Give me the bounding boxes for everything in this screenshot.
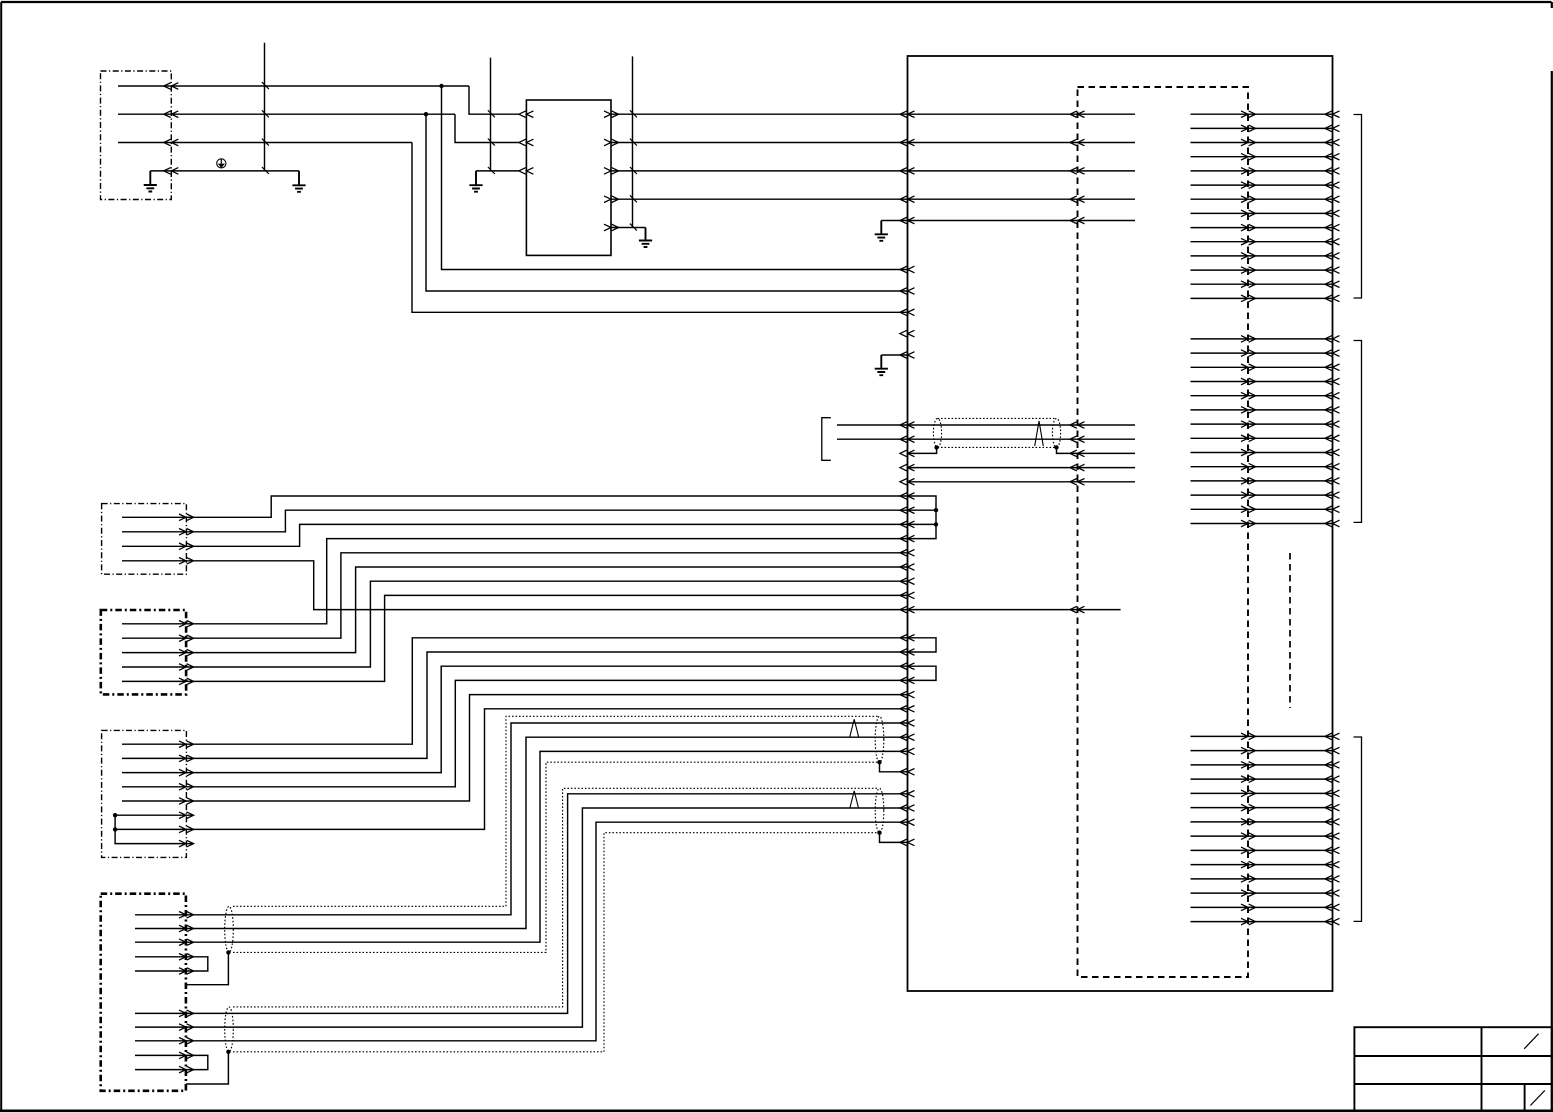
wire net A2 branch to M1 row [426,114,908,291]
wire J4-7 to row 708.8 [115,706,914,833]
commoning jumper rows 495-537 [908,496,937,539]
wire ground row 355 [881,352,914,359]
output group 2 row 13 [1191,506,1340,513]
wire J4-4 to row 680.4 [122,677,915,790]
wire J4-5 to row 694.6 [122,691,915,804]
output group 3 row 12 [1191,890,1340,897]
output group 2 row 3 [1191,364,1340,371]
cable group bracket (left) [822,418,831,461]
connector J4 (dash-dot shell) [102,730,187,857]
output group 2 row 11 [1191,478,1340,485]
wire J5-1 shielded to row 723.0 [135,720,915,918]
wire net A2 drop to row [455,114,519,142]
wire J4-3 to row 666.2 [122,663,915,776]
U1 left pin 1 [519,111,534,118]
loom line 1 [264,43,266,171]
output group 1 row 9 [1191,224,1340,231]
loom 3 join slashes [630,110,637,230]
ground at U1 pin 3 [469,171,482,192]
wire J2-1 to row 495.1 [122,493,915,521]
output group 1 row 4 [1191,153,1340,160]
output group 3 row 14 [1191,918,1340,925]
junction on net A1 [439,84,443,88]
output group 2 row 5 [1191,392,1340,399]
shield C drain to M1 [877,831,914,846]
output group 2 row 6 [1191,407,1340,414]
bracket group 1 [1354,115,1362,299]
jumper tap row 509.3 [908,508,939,512]
loom line 2 [490,58,492,171]
wire J4-1 to row 637.8 [122,635,915,748]
inner chevron row y=199.2 [1070,196,1085,203]
frame border left [0,2,2,1111]
J5 pins 4-5 U-link [135,954,208,975]
wire shielded pair row 425.0 [837,422,1135,429]
wire J3-3 to row 567.0 [122,564,915,656]
junction on net A2 [424,112,428,116]
output group 2 row 4 [1191,378,1340,385]
output group 2 row 9 [1191,449,1340,456]
shield B drain to M1 [877,760,914,775]
wire row 481.8 (internal) [900,479,1135,486]
connector J2 (dash-dot shell) [102,504,187,575]
output group 3 row 13 [1191,904,1340,911]
output group 3 row 11 [1191,876,1340,883]
wire J4-2 to row 652.0 [122,649,915,762]
wire net A1 branch to M1 row [442,86,908,270]
shield B drain to J5 shell [186,950,231,985]
output group 2 row 10 [1191,463,1340,470]
wire J2-2 to row 509.3 [122,507,915,535]
bracket group 2 [1354,341,1362,523]
M1 left entry row 312.3 [900,309,915,316]
output group 3 row 8 [1191,833,1340,840]
dashed separator segment inside M1 [1289,553,1291,708]
J4 pins 6-8 commoning link [115,815,194,847]
loom 2 join slashes [488,110,495,174]
U1 left pin 2 [519,139,534,146]
ground at U1 pin 5 [639,228,652,248]
M1 left entry chevron row y=170.9 [900,168,915,175]
wire J1-2 net A2 [118,111,455,118]
wire net A3 branch to M1 row [412,143,908,313]
U-link rows 666.2-680.4 [908,666,937,680]
U1 right pin 4 wire to M1 [604,196,1135,203]
output group 1 row 14 [1191,295,1340,302]
U1 left pin 3 wire [476,168,533,175]
output group 2 row 1 [1191,336,1340,343]
component U1 outline [526,100,611,255]
output group 1 row 10 [1191,238,1340,245]
inner chevron row y=142.5 [1070,139,1085,146]
output group 3 row 7 [1191,819,1340,826]
frame border bottom [0,1110,1553,1113]
M1 left entry chevron row y=142.5 [900,139,915,146]
output group 3 row 1 [1191,733,1340,740]
output group 2 row 2 [1191,350,1340,357]
output group 1 row 1 [1191,111,1340,118]
output group 1 row 8 [1191,210,1340,217]
output group 3 row 9 [1191,847,1340,854]
U1 right pin 2 wire to M1 [604,139,1135,146]
J4 pin 6 stub [115,812,194,819]
shield B envelope [225,716,884,952]
output group 1 row 11 [1191,253,1340,260]
module M1 inner dashed board outline [1078,87,1249,977]
M1 spare pin row 333.6 [900,330,915,337]
protective earth symbol [217,159,226,168]
output group 1 row 12 [1191,267,1340,274]
U1 right pin 1 wire to M1 [604,111,1135,118]
title block [1354,1027,1551,1110]
wire J5-2 shielded to row 737.2 [135,734,915,932]
wire J3-1 to row 538.6 [122,535,915,627]
wire J5-8 shielded to row 822.2 [135,819,915,1044]
junction J4 pin 6 [113,813,117,817]
wire J3-5 to row 595.4 [122,592,915,685]
wire J1-1 net A1 [118,83,469,90]
wire J2-4 long net to M1 interior [122,558,1121,613]
output group 1 row 6 [1191,182,1340,189]
output group 3 row 10 [1191,861,1340,868]
U1 right pin 5 wire [604,224,646,231]
ground at J1-4 right [292,171,305,192]
output group 3 row 6 [1191,804,1340,811]
wire J1-4 ground net [150,168,299,175]
shield A pigtail mark [1035,421,1044,446]
wire J5-6 shielded to row 793.8 [135,791,915,1017]
frame border top [1,1,1552,3]
ground at J1-4 left [144,171,157,192]
U1 right pin 3 wire to M1 [604,168,1135,175]
inner chevron row y=114.2 [1070,111,1085,118]
output group 1 row 5 [1191,168,1340,175]
module M1 outline (main unit) [908,56,1333,991]
wire net A1 drop to row [469,86,519,114]
M1 left entry chevron row y=199.2 [900,196,915,203]
connector J3 (bold dash-dot shell) [101,610,186,694]
output group 3 row 5 [1191,790,1340,797]
wire shield-ground row 220.5 [881,217,1135,224]
U-link rows 637.8-652.0 [908,638,937,652]
bracket group 3 [1354,737,1362,921]
output group 3 row 4 [1191,776,1340,783]
loom line 3 [632,56,634,227]
shield A right drain [1054,445,1135,457]
ground at row 220.5 [875,221,888,241]
shield B pigtail mark [850,719,859,737]
M1 left entry chevron row y=114.2 [900,111,915,118]
inner chevron row y=170.9 [1070,168,1085,175]
wire J5-3 shielded to row 751.4 [135,748,915,945]
wire J5-7 shielded to row 808.0 [135,805,915,1031]
connector J5 (bold dash-dot shell) [101,894,186,1091]
frame border right [1551,2,1553,1111]
shield C drain to J5 shell [186,1050,231,1084]
output group 3 row 2 [1191,747,1340,754]
shield A envelope [933,418,1060,447]
M1 left entry row 291 [900,288,915,295]
title block slash 2 [1530,1090,1544,1105]
connector J1 (top-left, dash-dot shell) [101,71,172,200]
output group 2 row 14 [1191,520,1340,527]
junction J4 pin 7 [113,827,117,831]
loom 1 join slashes [262,82,269,174]
wire J3-4 to row 581.2 [122,578,915,670]
wire row 467.6 (internal) [900,464,1135,471]
title block slash 1 [1524,1034,1538,1049]
output group 1 row 3 [1191,139,1340,146]
J5 pins 9-10 U-link [135,1052,208,1073]
output group 1 row 2 [1191,125,1340,132]
output group 2 row 8 [1191,435,1340,442]
shield C pigtail mark [850,791,859,809]
jumper tap row 523.5 [908,522,939,526]
output group 3 row 3 [1191,762,1340,769]
output group 2 row 7 [1191,421,1340,428]
output group 1 row 7 [1191,196,1340,203]
wire J1-3 net A3 [118,139,412,146]
shield C envelope [225,788,884,1052]
output group 2 row 12 [1191,492,1340,499]
M1 left entry row 269.5 [900,266,915,273]
wire shielded pair row 439.2 [837,436,1135,443]
output group 1 row 13 [1191,281,1340,288]
wire J2-3 to row 523.5 [122,521,915,550]
ground at row 355 [875,355,888,375]
wire J3-2 to row 552.8 [122,550,915,642]
shield A left drain [900,445,939,457]
